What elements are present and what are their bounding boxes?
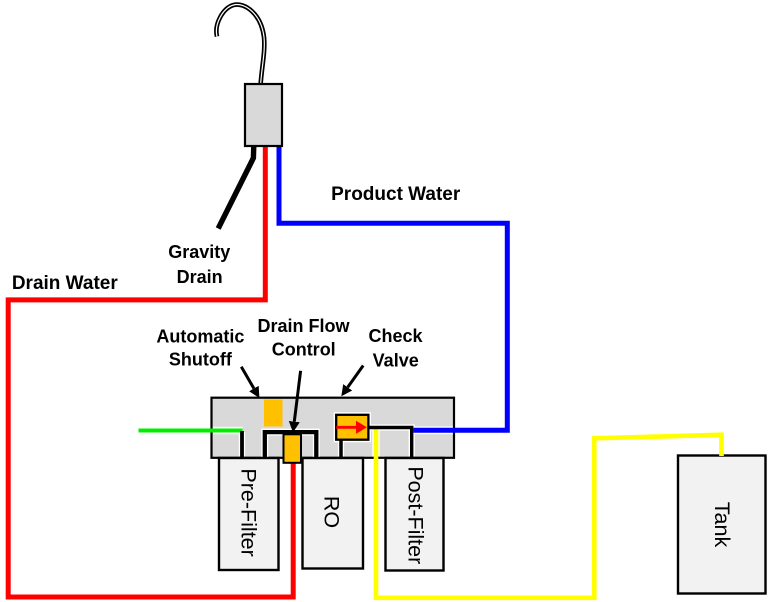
- product water pipe (blue): [279, 144, 507, 430]
- faucet body: [245, 84, 282, 146]
- svg-text:Product Water: Product Water: [331, 184, 461, 205]
- automatic shutoff valve: [264, 400, 283, 427]
- svg-text:Automatic: Automatic: [156, 326, 244, 346]
- feed water pipe (green): [139, 429, 243, 433]
- drain water pipe (red): [8, 144, 293, 597]
- svg-text:Check: Check: [368, 326, 423, 346]
- svg-text:Drain Water: Drain Water: [12, 273, 119, 294]
- pre-filter inlet connector: [240, 431, 244, 458]
- svg-text:Pre-Filter: Pre-Filter: [236, 468, 260, 556]
- drain connector bracket: [265, 432, 317, 458]
- annotation arrow to check valve: [348, 366, 364, 388]
- svg-text:RO: RO: [320, 496, 344, 528]
- post-filter housing: [386, 458, 444, 571]
- RO housing: [303, 458, 364, 569]
- white outline halos on manifold: [213, 413, 453, 457]
- tank: [678, 456, 766, 594]
- gravity drain pipe: [218, 145, 254, 229]
- svg-text:Tank: Tank: [710, 502, 734, 548]
- post-filter connector: [369, 428, 412, 459]
- svg-text:Gravity: Gravity: [168, 242, 230, 262]
- manifold: [212, 398, 455, 458]
- svg-text:Valve: Valve: [373, 350, 419, 370]
- pre-filter housing: [219, 458, 279, 570]
- svg-text:Drain Flow: Drain Flow: [257, 316, 350, 336]
- check valve: [336, 415, 368, 440]
- check valve outlet connector: [339, 441, 343, 458]
- svg-text:Drain: Drain: [177, 267, 223, 287]
- tank feed pipe (yellow): [376, 429, 722, 598]
- drain flow control valve: [284, 434, 302, 463]
- check valve arrow: [336, 421, 367, 434]
- svg-text:Shutoff: Shutoff: [169, 349, 233, 369]
- svg-text:Control: Control: [272, 340, 336, 360]
- faucet gooseneck: [216, 5, 264, 86]
- svg-text:Post-Filter: Post-Filter: [404, 466, 428, 564]
- annotation arrow to drain flow control: [294, 371, 300, 422]
- annotation arrow to automatic shutoff: [241, 367, 254, 389]
